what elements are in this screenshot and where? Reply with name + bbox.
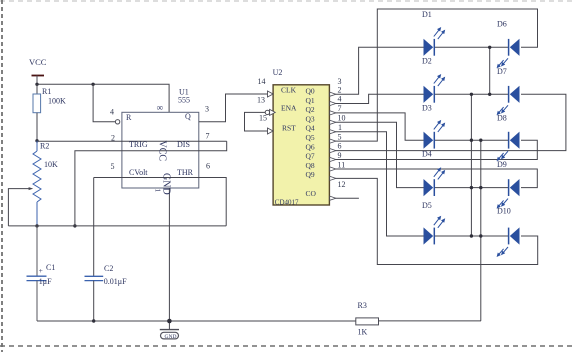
svg-text:1: 1 — [338, 123, 342, 132]
wire analog rail — [8, 225, 226, 227]
svg-text:1K: 1K — [358, 328, 368, 337]
wire Q0 to D1 — [352, 47, 424, 94]
svg-text:6: 6 — [206, 162, 210, 171]
wire DIS loop — [75, 141, 227, 226]
svg-text:14: 14 — [258, 77, 266, 86]
LED D6 — [497, 20, 520, 69]
LED D7 — [497, 67, 520, 115]
wire cathode row 5 (D5-D10) — [435, 235, 508, 237]
svg-text:5: 5 — [338, 132, 342, 141]
LED D8 — [497, 114, 520, 162]
wire cathode row 2 (D2-D7) — [435, 93, 508, 95]
node pin4 branch — [91, 83, 94, 86]
svg-text:1: 1 — [154, 189, 163, 193]
svg-text:D1: D1 — [422, 10, 432, 19]
svg-text:2: 2 — [338, 85, 342, 94]
resistor R1 — [33, 84, 66, 141]
svg-text:D3: D3 — [422, 104, 432, 113]
node R2 bottom — [35, 224, 38, 227]
node row1 junction — [488, 46, 491, 49]
svg-text:1μF: 1μF — [39, 277, 52, 286]
U2 pin ENA (pin 13) input arrow — [270, 109, 276, 115]
wire CVolt down to C2 — [93, 178, 95, 277]
U2 pin Q0 (pin 3) stub — [330, 77, 352, 96]
wire Q3 to D4 — [352, 122, 424, 187]
op-amp U1 555 timer labels — [110, 88, 210, 195]
wire Q1 to D2 — [352, 94, 424, 103]
svg-text:100K: 100K — [48, 97, 66, 106]
svg-text:C1: C1 — [46, 263, 55, 272]
svg-text:U2: U2 — [273, 68, 283, 77]
U2 pin Q6 (pin 5) stub — [330, 132, 352, 152]
svg-text:CVolt: CVolt — [129, 168, 148, 177]
node VCC/R1 — [35, 83, 38, 86]
svg-text:11: 11 — [338, 161, 346, 170]
svg-text:4: 4 — [338, 95, 342, 104]
wire Q5 to D6 via top — [352, 9, 538, 141]
svg-text:+: + — [39, 266, 43, 275]
U2 pin Q5 (pin 1) stub — [330, 123, 352, 143]
svg-text:VCC: VCC — [29, 57, 47, 67]
U2 pin Q3 (pin 7) stub — [330, 104, 352, 124]
wire Q7 to D8 — [352, 140, 537, 159]
U2 pin Q9 (pin 11) stub — [330, 161, 352, 181]
U2 pin CLK (pin 14) input arrow — [268, 91, 274, 97]
svg-text:D7: D7 — [497, 67, 507, 76]
wire TRIG/DIS line — [37, 140, 227, 142]
svg-text:TRIG: TRIG — [129, 140, 148, 149]
svg-text:R: R — [126, 113, 132, 122]
wire top rail VCC to 555 pin8 — [37, 84, 169, 112]
U2 pin CO (pin 12) stub — [330, 180, 359, 200]
wire Q2 to D3 — [352, 113, 424, 140]
wire cathode bus vertical row3 to R3 — [480, 140, 482, 321]
capacitor C2 — [85, 264, 128, 321]
wire Q6 to D7 via right — [352, 94, 566, 150]
node R1/R2/TRIG — [35, 139, 38, 142]
svg-text:THR: THR — [177, 168, 194, 177]
U2 pin Q1 (pin 2) stub — [330, 85, 352, 105]
svg-text:Q3: Q3 — [306, 114, 315, 123]
wire Q9 to D10 via bottom — [352, 178, 538, 264]
U2 ENA inversion bubble — [265, 110, 269, 114]
wire to 555 pin4 (reset) — [93, 84, 115, 122]
node row3 junctions — [470, 139, 473, 142]
svg-text:D9: D9 — [497, 160, 507, 169]
svg-text:D6: D6 — [497, 20, 507, 29]
node row4 junctions — [470, 186, 473, 189]
svg-text:4: 4 — [110, 108, 114, 117]
svg-text:7: 7 — [206, 132, 210, 141]
wire CVolt/THR line — [94, 178, 227, 226]
svg-text:Q7: Q7 — [306, 152, 315, 161]
svg-text:D2: D2 — [422, 57, 432, 66]
wire cathode row 4 (D4-D9) — [435, 187, 508, 189]
svg-text:R3: R3 — [358, 301, 367, 310]
svg-text:Q9: Q9 — [306, 170, 315, 179]
svg-text:12: 12 — [338, 180, 346, 189]
svg-text:CD4017: CD4017 — [275, 199, 299, 207]
svg-text:2: 2 — [111, 134, 115, 143]
node row2 junctions — [488, 93, 491, 96]
svg-text:555: 555 — [178, 96, 190, 105]
svg-text:0.01μF: 0.01μF — [104, 277, 127, 286]
svg-text:VCC: VCC — [156, 141, 167, 162]
svg-text:10: 10 — [338, 114, 346, 123]
svg-text:GND: GND — [165, 334, 177, 340]
svg-text:7: 7 — [338, 104, 342, 113]
svg-text:D5: D5 — [422, 201, 432, 210]
wire cathode row 3 (D3-D8) — [435, 139, 508, 141]
svg-text:CO: CO — [306, 189, 317, 198]
svg-text:D4: D4 — [422, 149, 432, 158]
wire Q8 to D9 — [352, 169, 537, 188]
wire bottom ground rail — [37, 320, 356, 322]
wire U2 ENA-RST tie — [245, 112, 268, 131]
node rail/DIS branch — [73, 224, 76, 227]
wire cathode row 1 (D1-D6) — [435, 46, 508, 48]
wire cathode bus vertical row2-row5 — [470, 94, 472, 236]
svg-text:Q2: Q2 — [306, 105, 315, 114]
ground symbol — [160, 188, 179, 340]
svg-text:ENA: ENA — [281, 104, 297, 113]
U2 pin Q2 (pin 4) stub — [330, 95, 352, 115]
svg-text:Q: Q — [185, 112, 191, 121]
svg-text:Q1: Q1 — [306, 96, 315, 105]
U2 pin RST (pin 15) input arrow — [268, 128, 274, 134]
LED D1 — [422, 10, 445, 56]
svg-text:9: 9 — [338, 151, 342, 160]
svg-text:∞: ∞ — [157, 103, 163, 113]
svg-text:RST: RST — [282, 124, 296, 133]
wire 555 Q out to U2 CLK — [199, 94, 268, 122]
resistor R2 (pot) — [33, 141, 58, 226]
svg-text:Q0: Q0 — [306, 87, 315, 96]
U2 pin Q7 (pin 6) stub — [330, 142, 352, 162]
svg-text:3: 3 — [205, 105, 209, 114]
svg-text:DIS: DIS — [177, 140, 190, 149]
svg-text:D10: D10 — [497, 207, 511, 216]
wire cathode bus vertical row1-row2 — [489, 47, 491, 94]
LED D9 — [497, 160, 520, 209]
wire Q4 to D5 — [352, 132, 424, 236]
svg-text:10K: 10K — [44, 160, 58, 169]
svg-text:R1: R1 — [42, 87, 51, 96]
svg-text:D8: D8 — [497, 114, 507, 123]
LED D3 — [422, 104, 445, 149]
op-amp U1 555 body box — [122, 112, 199, 188]
resistor R3 — [356, 301, 481, 337]
svg-text:Q8: Q8 — [306, 161, 315, 170]
VCC power symbol — [29, 57, 47, 84]
svg-text:Q6: Q6 — [306, 142, 315, 151]
LED D5 — [422, 201, 445, 245]
svg-text:R2: R2 — [40, 142, 49, 151]
LED D2 — [422, 57, 445, 103]
svg-text:13: 13 — [257, 96, 265, 105]
svg-text:C2: C2 — [104, 264, 113, 273]
svg-text:6: 6 — [338, 142, 342, 151]
capacitor C1 — [27, 226, 56, 321]
U2 pin Q8 (pin 9) stub — [330, 151, 352, 171]
LED D4 — [422, 149, 445, 196]
svg-text:5: 5 — [111, 162, 115, 171]
U2 CD4017 body — [257, 68, 329, 207]
svg-text:15: 15 — [259, 114, 267, 123]
U2 pin Q4 (pin 10) stub — [330, 114, 352, 134]
svg-text:Q4: Q4 — [306, 124, 315, 133]
LED D10 — [497, 207, 520, 258]
node row5 junctions — [470, 234, 473, 237]
U1 pin4 R inversion bubble — [115, 120, 119, 124]
wiper wire of R2 — [8, 187, 33, 226]
svg-text:Q5: Q5 — [306, 133, 315, 142]
svg-text:CLK: CLK — [281, 86, 297, 95]
